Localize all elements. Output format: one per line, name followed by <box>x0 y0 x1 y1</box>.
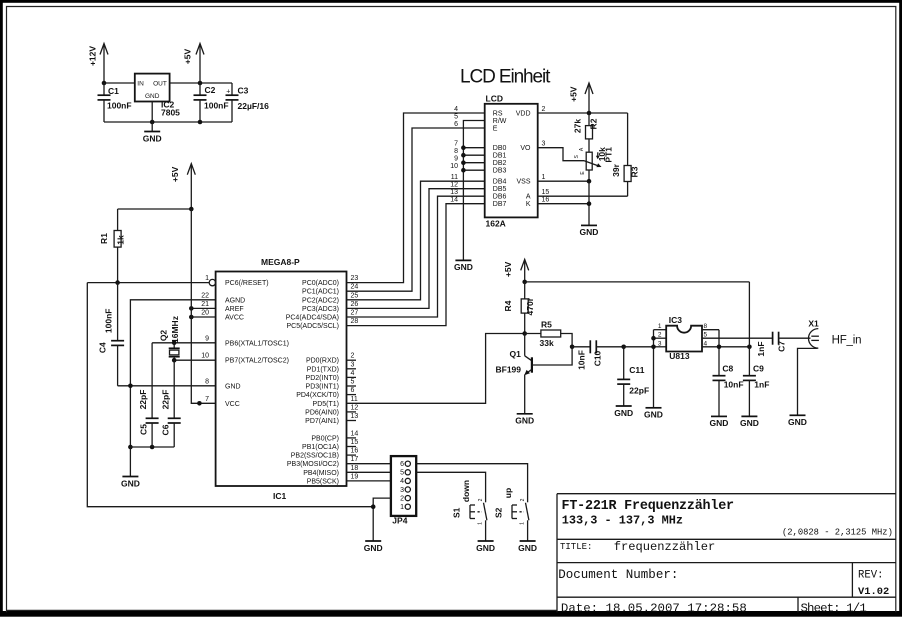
junction 7805 out / +5V <box>198 81 203 86</box>
svg-text:1: 1 <box>542 174 546 181</box>
svg-text:2: 2 <box>520 498 526 501</box>
LCD left pin names <box>493 111 507 209</box>
junction crystal bottom / C6 <box>172 358 177 363</box>
svg-text:PB5(SCK): PB5(SCK) <box>307 478 339 485</box>
connector JP4 <box>391 456 416 525</box>
capacitor C9 1nF <box>743 347 770 417</box>
ground rail wire C4 to IC1 GND pin8 <box>118 385 216 387</box>
capacitor C2 100nF <box>194 83 229 122</box>
svg-text:7: 7 <box>454 141 458 148</box>
wire collector node to IC1 pin11 T1 <box>347 334 525 404</box>
svg-text:GND: GND <box>710 418 729 428</box>
svg-text:PD5(T1): PD5(T1) <box>313 401 339 408</box>
svg-text:1: 1 <box>658 323 662 330</box>
svg-text:PD1(TXD): PD1(TXD) <box>307 366 339 373</box>
wire IC1 pin18 to JP4 pin5 <box>347 471 391 473</box>
svg-text:S1: S1 <box>451 507 461 518</box>
+5V supply symbol above R4 <box>503 259 529 282</box>
svg-text:X1: X1 <box>808 318 819 328</box>
wire IC3 pin8/pin4 strap to C8 <box>702 330 749 376</box>
wire LCD VO to PT1 wiper <box>538 148 585 161</box>
svg-text:K: K <box>526 201 531 208</box>
svg-text:C8: C8 <box>722 364 733 374</box>
svg-text:C4: C4 <box>97 342 107 353</box>
svg-text:GND: GND <box>614 408 633 418</box>
ground symbol below S2 <box>518 541 537 553</box>
wire LCD R/W and DB0-DB3 to ground <box>463 121 484 261</box>
wire JP4 pin2 to gnd/reset rail <box>373 498 391 541</box>
IC1 right pin numbers <box>351 275 359 480</box>
+5V rail to prescaler <box>525 281 750 283</box>
switch S1 down <box>451 480 487 541</box>
junction collector node <box>522 331 527 336</box>
svg-text:IC3: IC3 <box>669 315 683 325</box>
svg-text:1nF: 1nF <box>754 379 769 389</box>
junction AREF <box>189 306 194 311</box>
wire IC3 pin5 to C7 <box>702 337 773 339</box>
junction IC3 pin3 <box>651 345 656 350</box>
svg-text:2: 2 <box>400 495 404 502</box>
svg-text:10nF: 10nF <box>577 350 587 370</box>
junction +5V rail <box>522 280 527 285</box>
svg-text:12: 12 <box>450 182 458 189</box>
capacitor C6 22pF <box>160 360 180 447</box>
svg-text:GND: GND <box>454 262 473 272</box>
svg-text:U813: U813 <box>669 351 690 361</box>
svg-text:GND: GND <box>225 383 241 390</box>
svg-text:C10: C10 <box>593 350 603 366</box>
svg-text:1: 1 <box>205 275 209 282</box>
ground symbol below S1 <box>476 541 495 553</box>
IC1 left pin numbers <box>201 275 209 403</box>
svg-text:PD2(INT0): PD2(INT0) <box>306 375 339 382</box>
svg-text:Q1: Q1 <box>510 349 522 359</box>
svg-text:PD0(RXD): PD0(RXD) <box>306 358 339 365</box>
svg-text:R/W: R/W <box>493 118 507 125</box>
svg-text:12: 12 <box>351 404 359 411</box>
wire to gnd symbol <box>129 447 131 477</box>
JP4 pin numbers <box>400 461 404 511</box>
wire reset net: IC1 pin1 to left rail <box>87 282 209 284</box>
crystal Q2 16MHz <box>158 316 180 360</box>
svg-text:470r: 470r <box>525 297 535 315</box>
junction 7805 gnd on rail <box>150 120 155 125</box>
wire IC3 pins 1-2-3 strap to gnd <box>654 330 667 408</box>
svg-text:Sheet: 1/1: Sheet: 1/1 <box>801 602 867 616</box>
svg-text:4: 4 <box>351 370 355 377</box>
wire PB7 pin10 to crystal bottom <box>174 359 216 361</box>
wire JP4 pin5 row to switch S1 <box>416 472 485 500</box>
svg-text:MEGA8-P: MEGA8-P <box>261 257 300 267</box>
svg-text:up: up <box>503 488 513 498</box>
potentiometer PT1 10k <box>574 147 614 181</box>
svg-text:Q2: Q2 <box>158 330 168 342</box>
svg-text:PB7(XTAL2/TOSC2): PB7(XTAL2/TOSC2) <box>225 358 289 365</box>
svg-text:2: 2 <box>658 332 662 339</box>
junction crystal top <box>172 341 177 346</box>
ground symbol power section <box>143 132 162 144</box>
voltage regulator IC2 7805 <box>135 74 180 118</box>
junction VDD +5V <box>587 111 592 116</box>
svg-text:DB6: DB6 <box>493 194 507 201</box>
capacitor C5 22pF <box>138 343 158 447</box>
svg-text:C6: C6 <box>161 424 171 435</box>
svg-text:R3: R3 <box>629 166 639 177</box>
svg-text:PD4(XCK/T0): PD4(XCK/T0) <box>296 392 339 399</box>
microcontroller IC1 MEGA8-P <box>216 257 347 501</box>
svg-text:VCC: VCC <box>225 401 240 408</box>
svg-text:25: 25 <box>351 292 359 299</box>
wire AVCC pin20 <box>191 316 216 318</box>
svg-text:15: 15 <box>542 189 550 196</box>
svg-text:AGND: AGND <box>225 297 245 304</box>
svg-text:28: 28 <box>351 318 359 325</box>
svg-text:GND: GND <box>515 416 534 426</box>
svg-text:OUT: OUT <box>153 80 167 87</box>
svg-text:7: 7 <box>205 396 209 403</box>
svg-text:20: 20 <box>201 310 209 317</box>
svg-text:11: 11 <box>351 396 358 403</box>
junction VCC <box>197 401 202 406</box>
svg-text:5: 5 <box>454 114 458 121</box>
svg-text:AREF: AREF <box>225 306 244 313</box>
svg-text:22µF/16: 22µF/16 <box>238 101 270 111</box>
svg-text:(2,0828 - 2,3125 MHz): (2,0828 - 2,3125 MHz) <box>782 527 893 537</box>
svg-text:+12V: +12V <box>88 46 98 66</box>
junction AGND on gnd rail <box>128 384 133 389</box>
svg-text:HF_in: HF_in <box>832 335 862 347</box>
ground symbol below IC3 strap <box>644 408 663 420</box>
junction pin4 row <box>717 345 722 350</box>
svg-text:DB7: DB7 <box>493 201 507 208</box>
svg-text:22pF: 22pF <box>160 390 170 410</box>
svg-text:R4: R4 <box>503 300 513 311</box>
wire LCD VDD to R3 top <box>538 112 628 114</box>
svg-text:Date: 18.05.2007 17:28:58: Date: 18.05.2007 17:28:58 <box>561 602 747 616</box>
ground symbol below JP4 <box>364 541 383 553</box>
svg-text:6: 6 <box>454 121 458 128</box>
svg-text:GND: GND <box>644 410 663 420</box>
svg-text:8: 8 <box>454 148 458 155</box>
svg-text:9: 9 <box>205 335 209 342</box>
wire IC1 pin19 to JP4 pin4 <box>347 480 391 482</box>
svg-text:R5: R5 <box>541 320 552 330</box>
svg-text:IC1: IC1 <box>273 491 287 501</box>
svg-text:R2: R2 <box>588 118 598 129</box>
ground symbol below C11 <box>614 406 633 418</box>
svg-text:17: 17 <box>351 456 359 463</box>
svg-text:10: 10 <box>201 353 209 360</box>
svg-text:7805: 7805 <box>161 108 180 118</box>
ground symbol below C9 <box>740 416 759 428</box>
junction K gnd <box>587 201 592 206</box>
svg-text:REV:: REV: <box>858 569 883 581</box>
svg-text:PC6(/RESET): PC6(/RESET) <box>225 280 269 287</box>
svg-text:3: 3 <box>351 361 355 368</box>
svg-text:14: 14 <box>351 430 359 437</box>
left rail wire down to JP4 row <box>87 283 373 507</box>
svg-text:27k: 27k <box>573 119 583 133</box>
wire LCD A to R3 bottom <box>538 195 628 197</box>
svg-text:33k: 33k <box>540 338 554 348</box>
svg-text:1: 1 <box>520 522 526 525</box>
wire PC2 pin25 to LCD DB4 <box>347 181 485 300</box>
wire JP4 pin6 row to switch S2 <box>416 464 527 500</box>
svg-text:TITLE:: TITLE: <box>560 542 592 552</box>
svg-text:2: 2 <box>351 353 355 360</box>
svg-text:100nF: 100nF <box>204 101 229 111</box>
resistor R4 470r <box>503 282 535 334</box>
+5V rail down to VCC pin7 <box>191 209 216 403</box>
svg-text:C1: C1 <box>108 86 119 96</box>
capacitor C11 22pF <box>617 347 649 406</box>
svg-text:PC1(ADC1): PC1(ADC1) <box>302 289 339 296</box>
IC1 right pin names <box>286 280 339 485</box>
svg-text:C2: C2 <box>205 85 216 95</box>
wire VSS node down to gnd <box>588 181 590 225</box>
connector X1 HF input <box>798 318 820 415</box>
junction node +12V/C1 <box>102 81 107 86</box>
junction R1/C4 on reset net <box>115 280 120 285</box>
svg-text:24: 24 <box>351 284 359 291</box>
switch S2 up <box>493 488 529 541</box>
svg-text:DB1: DB1 <box>493 153 507 160</box>
IC1 unconnected pin stubs right <box>347 360 357 455</box>
svg-text:LCD Einheit: LCD Einheit <box>460 67 551 88</box>
svg-text:2: 2 <box>478 498 484 501</box>
wire PC5 pin28 to LCD DB7 <box>347 204 485 326</box>
svg-text:JP4: JP4 <box>392 516 407 526</box>
LCD right pin names <box>516 111 531 209</box>
svg-text:6: 6 <box>400 461 404 468</box>
svg-text:PB6(XTAL1/TOSC1): PB6(XTAL1/TOSC1) <box>225 340 289 347</box>
junction IC3 pin2 <box>651 336 656 341</box>
svg-text:PD7(AIN1): PD7(AIN1) <box>305 418 339 425</box>
LCD right pin numbers <box>542 106 550 204</box>
junction +5V branch <box>189 207 194 212</box>
junction DB3 gnd <box>461 168 466 173</box>
wire +5V node to R1 top <box>118 208 192 210</box>
svg-text:V1.02: V1.02 <box>858 586 889 598</box>
capacitor C3 22uF/16 polarized <box>226 83 270 122</box>
transistor Q1 BF199 <box>496 334 573 414</box>
junction JP4 gnd rail <box>371 504 376 509</box>
+12V supply symbol <box>88 44 109 84</box>
svg-text:10nF: 10nF <box>724 379 744 389</box>
wire IC1 pin17 to JP4 pin6 <box>347 463 391 465</box>
svg-text:GND: GND <box>740 418 759 428</box>
svg-text:16MHz: 16MHz <box>170 316 180 343</box>
svg-text:11: 11 <box>451 174 458 181</box>
svg-text:3: 3 <box>400 487 404 494</box>
junction VSS/PT1 <box>587 179 592 184</box>
svg-text:5: 5 <box>400 470 404 477</box>
svg-text:PB3(MOSI/OC2): PB3(MOSI/OC2) <box>287 461 339 468</box>
svg-text:PB4(MISO): PB4(MISO) <box>303 470 339 477</box>
junction base node <box>570 345 575 350</box>
svg-text:133,3 - 137,3 MHz: 133,3 - 137,3 MHz <box>562 514 683 528</box>
svg-text:Document Number:: Document Number: <box>558 568 678 582</box>
svg-text:BF199: BF199 <box>496 365 522 375</box>
svg-text:1k: 1k <box>116 235 126 245</box>
svg-text:A: A <box>526 194 531 201</box>
svg-text:2: 2 <box>542 106 546 113</box>
svg-text:GND: GND <box>788 417 807 427</box>
wire PC0 pin23 to LCD RS <box>347 113 485 283</box>
svg-text:C3: C3 <box>238 86 249 96</box>
svg-text:8: 8 <box>205 378 209 385</box>
svg-text:GND: GND <box>121 478 140 488</box>
svg-text:18: 18 <box>351 465 359 472</box>
svg-text:VSS: VSS <box>516 179 530 186</box>
svg-text:PC5(ADC5/SCL): PC5(ADC5/SCL) <box>286 323 339 330</box>
svg-text:FT-221R Frequenzzähler: FT-221R Frequenzzähler <box>562 499 735 514</box>
svg-text:100nF: 100nF <box>103 309 113 334</box>
ground symbol below Q1 <box>515 414 534 426</box>
svg-text:GND: GND <box>580 227 599 237</box>
svg-text:R1: R1 <box>99 233 109 244</box>
svg-text:15: 15 <box>351 439 359 446</box>
svg-text:S2: S2 <box>493 507 503 518</box>
+5V supply symbol (top) <box>183 44 205 84</box>
svg-text:PD6(AIN0): PD6(AIN0) <box>305 409 339 416</box>
wire AREF pin21 <box>191 307 216 309</box>
svg-text:+5V: +5V <box>503 261 513 277</box>
IC1 left pin names <box>225 280 289 408</box>
svg-text:16: 16 <box>542 197 550 204</box>
svg-text:E: E <box>493 126 498 133</box>
svg-text:PB0(CP): PB0(CP) <box>311 435 339 442</box>
svg-text:13: 13 <box>450 189 458 196</box>
wire PC3 pin26 to LCD DB5 <box>347 189 485 309</box>
wire +12V node to 7805 IN <box>104 82 135 84</box>
junction AVCC <box>189 315 194 320</box>
svg-text:4: 4 <box>400 478 404 485</box>
junction +5V at prescaler <box>747 345 752 350</box>
svg-text:10: 10 <box>450 163 458 170</box>
svg-text:DB0: DB0 <box>493 145 507 152</box>
svg-text:5: 5 <box>351 379 355 386</box>
capacitor C7 1nF <box>756 332 811 357</box>
capacitor C1 100nF <box>98 83 132 122</box>
wire PC4 pin27 to LCD DB6 <box>347 196 485 317</box>
svg-text:GND: GND <box>145 93 160 100</box>
IC3 pin numbers <box>658 323 708 347</box>
svg-text:1: 1 <box>400 504 404 511</box>
wire 7805 GND pin down <box>151 102 153 132</box>
svg-text:IN: IN <box>137 80 144 87</box>
svg-text:C9: C9 <box>753 364 764 374</box>
svg-text:19: 19 <box>351 473 359 480</box>
svg-text:GND: GND <box>143 133 162 143</box>
svg-text:PB1(OC1A): PB1(OC1A) <box>302 444 339 451</box>
svg-text:6: 6 <box>351 387 355 394</box>
svg-text:3: 3 <box>658 340 662 347</box>
svg-text:PB2(SS/OC1B): PB2(SS/OC1B) <box>291 453 339 460</box>
svg-text:down: down <box>461 480 471 502</box>
svg-text:+5V: +5V <box>183 48 193 64</box>
svg-text:27: 27 <box>351 310 359 317</box>
svg-text:14: 14 <box>450 197 458 204</box>
svg-text:LCD: LCD <box>486 94 503 104</box>
wire LCD VSS to PT1 bottom <box>538 180 589 182</box>
svg-text:DB4: DB4 <box>493 179 507 186</box>
svg-text:16: 16 <box>351 448 359 455</box>
junction DB2 gnd <box>461 160 466 165</box>
wire 7805 OUT to +5V node and C3 <box>170 82 232 84</box>
junction C11 node <box>621 345 626 350</box>
wire AGND pin22 to ground <box>130 300 216 447</box>
capacitor C10 10nF coupling <box>572 340 624 370</box>
ground symbol below C8 <box>710 416 729 428</box>
bottom rail C5/C6 <box>130 446 174 448</box>
svg-text:162A: 162A <box>486 219 506 229</box>
svg-text:9: 9 <box>454 156 458 163</box>
wire PC1 pin24 to LCD E <box>347 128 485 291</box>
junction DB0 gnd <box>461 145 466 150</box>
svg-text:PC3(ADC3): PC3(ADC3) <box>302 306 339 313</box>
junction C5 bottom <box>150 445 155 450</box>
LCD left pin numbers <box>450 106 458 204</box>
svg-text:GND: GND <box>476 543 495 553</box>
svg-text:4: 4 <box>454 106 458 113</box>
ground symbol MCU left <box>121 477 140 489</box>
prescaler IC3 U813 <box>666 315 702 361</box>
svg-text:PT1: PT1 <box>604 147 614 163</box>
svg-text:AVCC: AVCC <box>225 315 244 322</box>
wire LCD K to gnd line <box>538 203 589 205</box>
pin 1 inversion bubble <box>209 279 215 285</box>
svg-text:DB5: DB5 <box>493 186 507 193</box>
svg-text:C7: C7 <box>776 341 786 352</box>
svg-text:22pF: 22pF <box>138 390 148 410</box>
svg-text:PD3(INT1): PD3(INT1) <box>306 384 339 391</box>
ground symbol below X1 <box>788 415 807 427</box>
svg-text:1nF: 1nF <box>756 341 766 356</box>
svg-text:22pF: 22pF <box>629 386 649 396</box>
title block frame lines <box>557 494 896 613</box>
svg-text:GND: GND <box>364 543 383 553</box>
svg-text:frequenzzähler: frequenzzähler <box>614 540 716 554</box>
ground symbol LCD right <box>580 225 599 237</box>
svg-text:PC0(ADC0): PC0(ADC0) <box>302 280 339 287</box>
svg-text:C11: C11 <box>629 365 644 375</box>
capacitor C4 100nF <box>97 283 124 386</box>
svg-text:+: + <box>226 88 230 95</box>
+5V supply symbol above IC1 <box>170 164 196 209</box>
svg-text:DB2: DB2 <box>493 160 507 167</box>
resistor R3 39r backlight <box>611 113 639 196</box>
svg-text:+5V: +5V <box>170 166 180 182</box>
+5V supply symbol above R2 <box>569 83 594 113</box>
svg-text:22: 22 <box>201 292 209 299</box>
capacitor C8 10nF <box>713 364 744 417</box>
+5V drop to prescaler supply <box>748 282 750 347</box>
svg-text:1: 1 <box>478 522 484 525</box>
ground rail under power section <box>104 121 232 123</box>
junction C2 on ground rail <box>198 120 203 125</box>
resistor R5 33k <box>525 320 572 349</box>
svg-text:26: 26 <box>351 301 359 308</box>
svg-text:21: 21 <box>201 301 209 308</box>
LCD display box 162A <box>485 94 538 229</box>
svg-text:VDD: VDD <box>516 111 531 118</box>
junction AGND at bottom rail <box>128 445 133 450</box>
junction DB1 gnd <box>461 153 466 158</box>
svg-text:C5: C5 <box>139 424 149 435</box>
svg-text:VO: VO <box>520 145 531 152</box>
wire PB6 pin9 to crystal/C5 <box>152 342 216 344</box>
